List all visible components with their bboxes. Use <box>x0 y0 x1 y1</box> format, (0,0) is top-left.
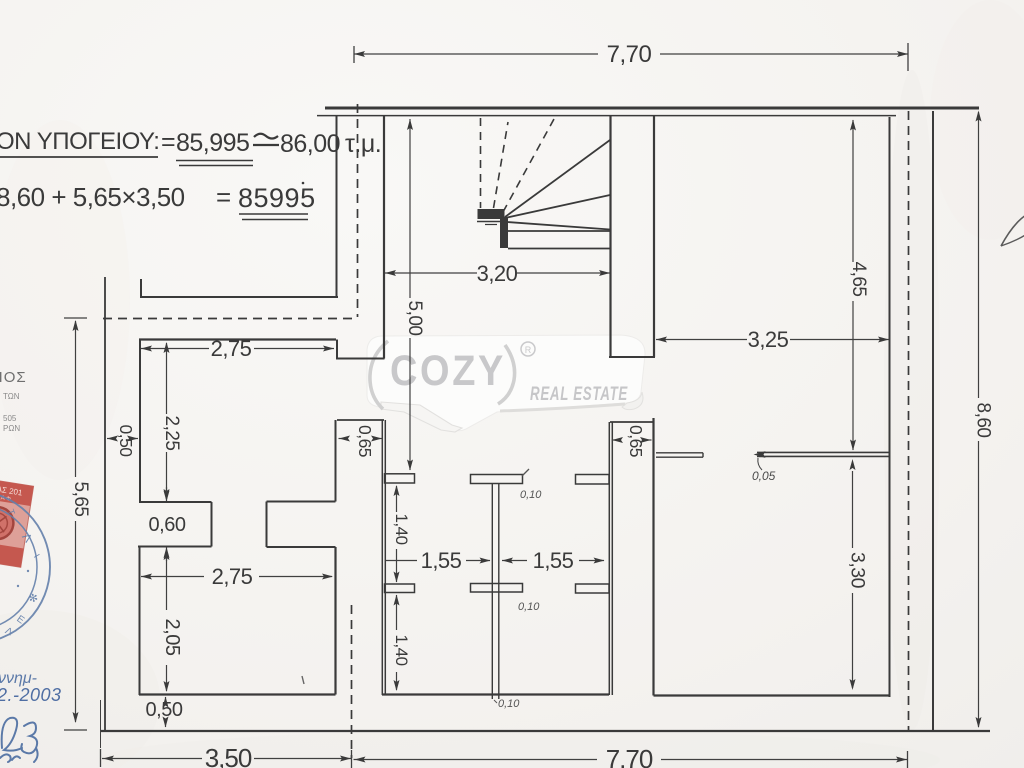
outer top wall <box>325 107 979 110</box>
svg-text:ΡΩΝ: ΡΩΝ <box>3 424 20 433</box>
stub wall A2 <box>385 584 415 593</box>
svg-text:=: = <box>161 128 176 156</box>
svg-text:ΟΝ ΥΠΟΓΕΙΟΥ:: ΟΝ ΥΠΟΓΕΙΟΥ: <box>0 128 159 155</box>
svg-text:0,10: 0,10 <box>520 489 542 501</box>
stray pen tick <box>302 676 304 684</box>
svg-text:505: 505 <box>3 414 17 423</box>
top wall inner line <box>317 115 896 117</box>
big room right wall x889 <box>889 117 891 697</box>
svg-text:0,50: 0,50 <box>116 424 136 457</box>
stairwell left wall x384 <box>383 115 385 359</box>
svg-text:85995: 85995 <box>238 183 316 213</box>
dim 0,60 <box>166 487 168 501</box>
double underline 85995 <box>239 213 308 215</box>
dim 2,75 upper <box>141 348 209 350</box>
left rooms right wall x335 segment upper <box>335 420 337 502</box>
stair tread diagonal 3 <box>507 222 610 230</box>
stair tread diagonal 1 <box>505 140 610 217</box>
svg-text:τ.μ.: τ.μ. <box>345 130 381 158</box>
left wing top wall y339 <box>139 338 336 340</box>
stub wall C2 <box>576 584 610 593</box>
stair hub dark bar <box>478 209 505 219</box>
svg-text:8,60: 8,60 <box>973 403 994 438</box>
jog wall y502 left <box>139 501 212 503</box>
svg-text:2,05: 2,05 <box>161 619 183 656</box>
svg-text:4,65: 4,65 <box>848 262 869 297</box>
stair tread horizontal 2 <box>508 248 610 250</box>
jog wall x211 <box>211 502 213 547</box>
upper-left wall vertical x336 <box>336 115 338 298</box>
svg-text:0,05: 0,05 <box>752 469 776 483</box>
dim 0,65 left strip <box>339 438 348 440</box>
stair right wall x610 upper <box>609 115 611 357</box>
svg-text:5,65: 5,65 <box>70 482 91 517</box>
svg-text:0,60: 0,60 <box>149 514 186 536</box>
pen slip at stub B1 <box>522 469 529 476</box>
left room right wall x140 upper <box>139 340 141 503</box>
dashed boundary x357 <box>357 104 359 317</box>
svg-text:2.-2003: 2.-2003 <box>0 685 62 705</box>
dashed boundary y318 <box>103 318 358 320</box>
svg-text:3,20: 3,20 <box>477 261 518 286</box>
dim 8,60 vertical right <box>978 112 980 398</box>
dim 2,75 lower <box>141 576 204 578</box>
svg-text:3,30: 3,30 <box>847 552 869 589</box>
dim 3,50 bottom <box>100 749 102 767</box>
left rooms right wall x335 segment lower <box>334 547 336 695</box>
dim 1,55 left <box>386 560 417 562</box>
svg-text:1,40: 1,40 <box>392 513 411 544</box>
svg-text:1,40: 1,40 <box>392 634 411 665</box>
middle room left wall double x382/385 <box>381 420 383 695</box>
pen swoosh top right <box>1001 215 1024 246</box>
svg-text:0,65: 0,65 <box>355 425 375 457</box>
left rooms bottom wall y694 <box>139 693 336 695</box>
svg-text:COZY: COZY <box>390 347 506 395</box>
ledge right with arrow (x757-889) <box>757 451 890 453</box>
jog wall y546 left <box>138 546 212 548</box>
dim 3,30 vertical <box>852 471 854 548</box>
dim 0,65 right strip <box>612 439 621 441</box>
svg-text:2,25: 2,25 <box>161 416 182 451</box>
dashed boundary x351 bottom <box>351 605 353 758</box>
svg-text:2,75: 2,75 <box>211 336 252 361</box>
wall y358 to stairwell <box>336 358 385 360</box>
dim 1,55 right <box>502 560 527 562</box>
svg-text:ΤΩΝ: ΤΩΝ <box>3 392 20 401</box>
dim 7,70 bottom <box>351 750 353 768</box>
underline of title <box>0 156 158 158</box>
dim 7,70 top <box>354 53 598 55</box>
center partition double line <box>491 484 493 700</box>
column wall x654 upper <box>653 115 655 357</box>
svg-text:8,60 + 5,65×3,50: 8,60 + 5,65×3,50 <box>0 182 185 212</box>
stair dashed upper flight 3 <box>503 119 554 212</box>
dim 3,20 stairwell <box>385 272 477 274</box>
blue stamp glyphs <box>3 508 41 639</box>
svg-text:0,50: 0,50 <box>146 699 183 721</box>
svg-text:R: R <box>525 345 532 355</box>
stair hub newel post <box>500 217 508 248</box>
column bottom y357 <box>609 356 655 358</box>
jog wall x266 <box>266 502 268 548</box>
left duct strip top y420 <box>337 419 384 421</box>
dim 2,25 vertical <box>166 343 168 414</box>
wall stub x141 <box>140 279 142 298</box>
jog wall y501 right <box>267 501 336 503</box>
stair dashed upper flight 1 <box>480 118 482 208</box>
left room wall x139 lower <box>139 547 141 696</box>
outer right wall x933 <box>932 111 934 731</box>
wing corner x337 <box>336 340 338 359</box>
dim 1,40 lower <box>396 595 398 630</box>
dashed boundary x908 <box>908 111 910 730</box>
stub wall C1 <box>576 475 610 485</box>
blue round stamp <box>0 491 50 643</box>
svg-text:2,75: 2,75 <box>212 564 253 589</box>
svg-text:1,55: 1,55 <box>421 548 462 573</box>
svg-text:3,25: 3,25 <box>748 327 789 352</box>
svg-text:7,70: 7,70 <box>606 744 653 768</box>
dim 5,00 vertical <box>409 119 411 298</box>
dim 0,50 bottom left <box>165 697 167 703</box>
watermark COZY real estate <box>367 335 645 432</box>
blue signature loops <box>0 718 38 762</box>
ledge left (x656-703) <box>656 452 703 454</box>
big room bottom wall <box>654 694 890 696</box>
svg-text:1,55: 1,55 <box>533 548 574 573</box>
right duct strip top y422 <box>610 421 653 423</box>
dim 1,40 upper <box>396 486 398 512</box>
wall horizontal y297 <box>140 296 338 298</box>
big room left wall x653 <box>652 418 654 696</box>
outer bottom wall <box>100 730 990 732</box>
svg-text:7,70: 7,70 <box>607 41 652 68</box>
svg-text:=: = <box>216 182 231 212</box>
middle room bottom wall <box>382 693 609 695</box>
dim 3,25 <box>656 339 747 341</box>
double underline 85,995 <box>176 160 253 162</box>
svg-text:0,65: 0,65 <box>626 425 646 457</box>
left outer boundary x105 <box>104 277 106 731</box>
svg-text:REAL ESTATE: REAL ESTATE <box>530 384 628 405</box>
dim 4,65 vertical <box>852 120 854 262</box>
stub wall B2 <box>471 584 523 593</box>
svg-text:86,00: 86,00 <box>280 130 340 158</box>
dim 5,65 vertical left <box>64 317 87 319</box>
dim 0,50 left <box>107 438 115 440</box>
jog wall y547 right <box>267 546 336 548</box>
stair tread horizontal 1 <box>508 230 610 232</box>
svg-text:3,50: 3,50 <box>205 743 252 768</box>
svg-text:0,10: 0,10 <box>518 601 540 613</box>
middle room right wall double x609/612 <box>608 422 610 695</box>
stair tread diagonal 2 <box>505 195 610 218</box>
svg-text:85,995: 85,995 <box>176 129 249 157</box>
stair dashed upper flight 2 <box>494 122 509 208</box>
stub wall B1 <box>471 475 523 484</box>
svg-text:0,10: 0,10 <box>498 698 520 710</box>
svg-text:5,00: 5,00 <box>404 301 425 336</box>
svg-text:ΊΟΣ: ΊΟΣ <box>0 369 27 386</box>
red revenue stamp <box>0 477 34 567</box>
dim 2,05 vertical <box>166 550 168 610</box>
stub wall A1 <box>385 474 415 483</box>
